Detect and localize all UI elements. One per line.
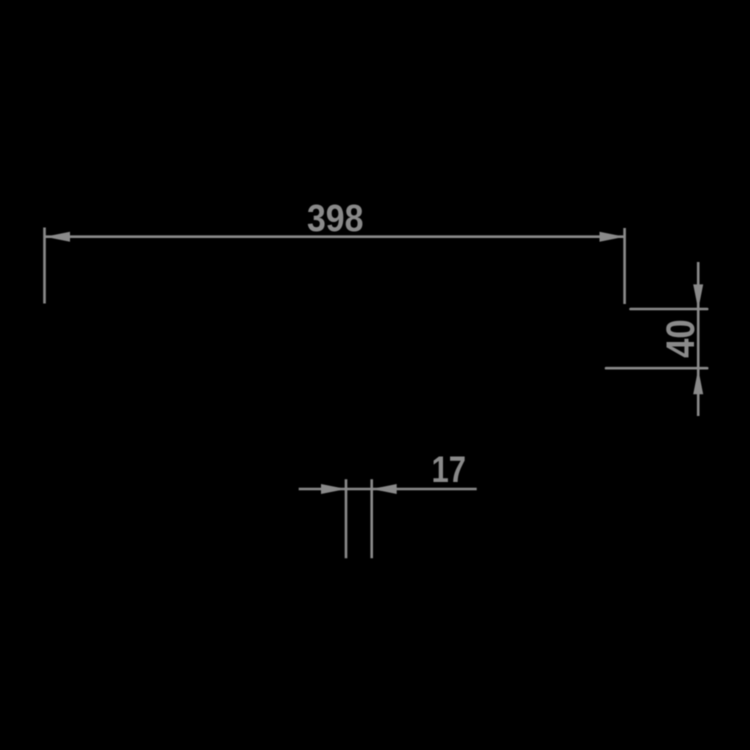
dimension line 17 xyxy=(299,488,477,491)
arrowhead bottom of 40 dim xyxy=(693,369,703,394)
arrowhead left of 17 dim xyxy=(321,484,346,494)
arrowhead right of 398 dim xyxy=(600,232,625,242)
extension line right of 17 dim xyxy=(370,479,373,558)
dimension line 40 xyxy=(697,262,700,416)
svg-text:17: 17 xyxy=(431,449,466,490)
dimension line 398 xyxy=(45,235,624,238)
extension line left of 17 dim xyxy=(345,479,348,558)
svg-text:40: 40 xyxy=(659,319,703,358)
extension line left of 398 dim xyxy=(43,228,46,304)
extension line upper of 40 dim xyxy=(631,308,708,311)
extension line right of 398 dim xyxy=(623,228,626,304)
extension line lower of 40 dim xyxy=(606,367,707,370)
arrowhead top of 40 dim xyxy=(693,284,703,309)
svg-text:398: 398 xyxy=(307,198,364,240)
arrowhead left of 398 dim xyxy=(45,232,70,242)
arrowhead right of 17 dim xyxy=(372,484,397,494)
